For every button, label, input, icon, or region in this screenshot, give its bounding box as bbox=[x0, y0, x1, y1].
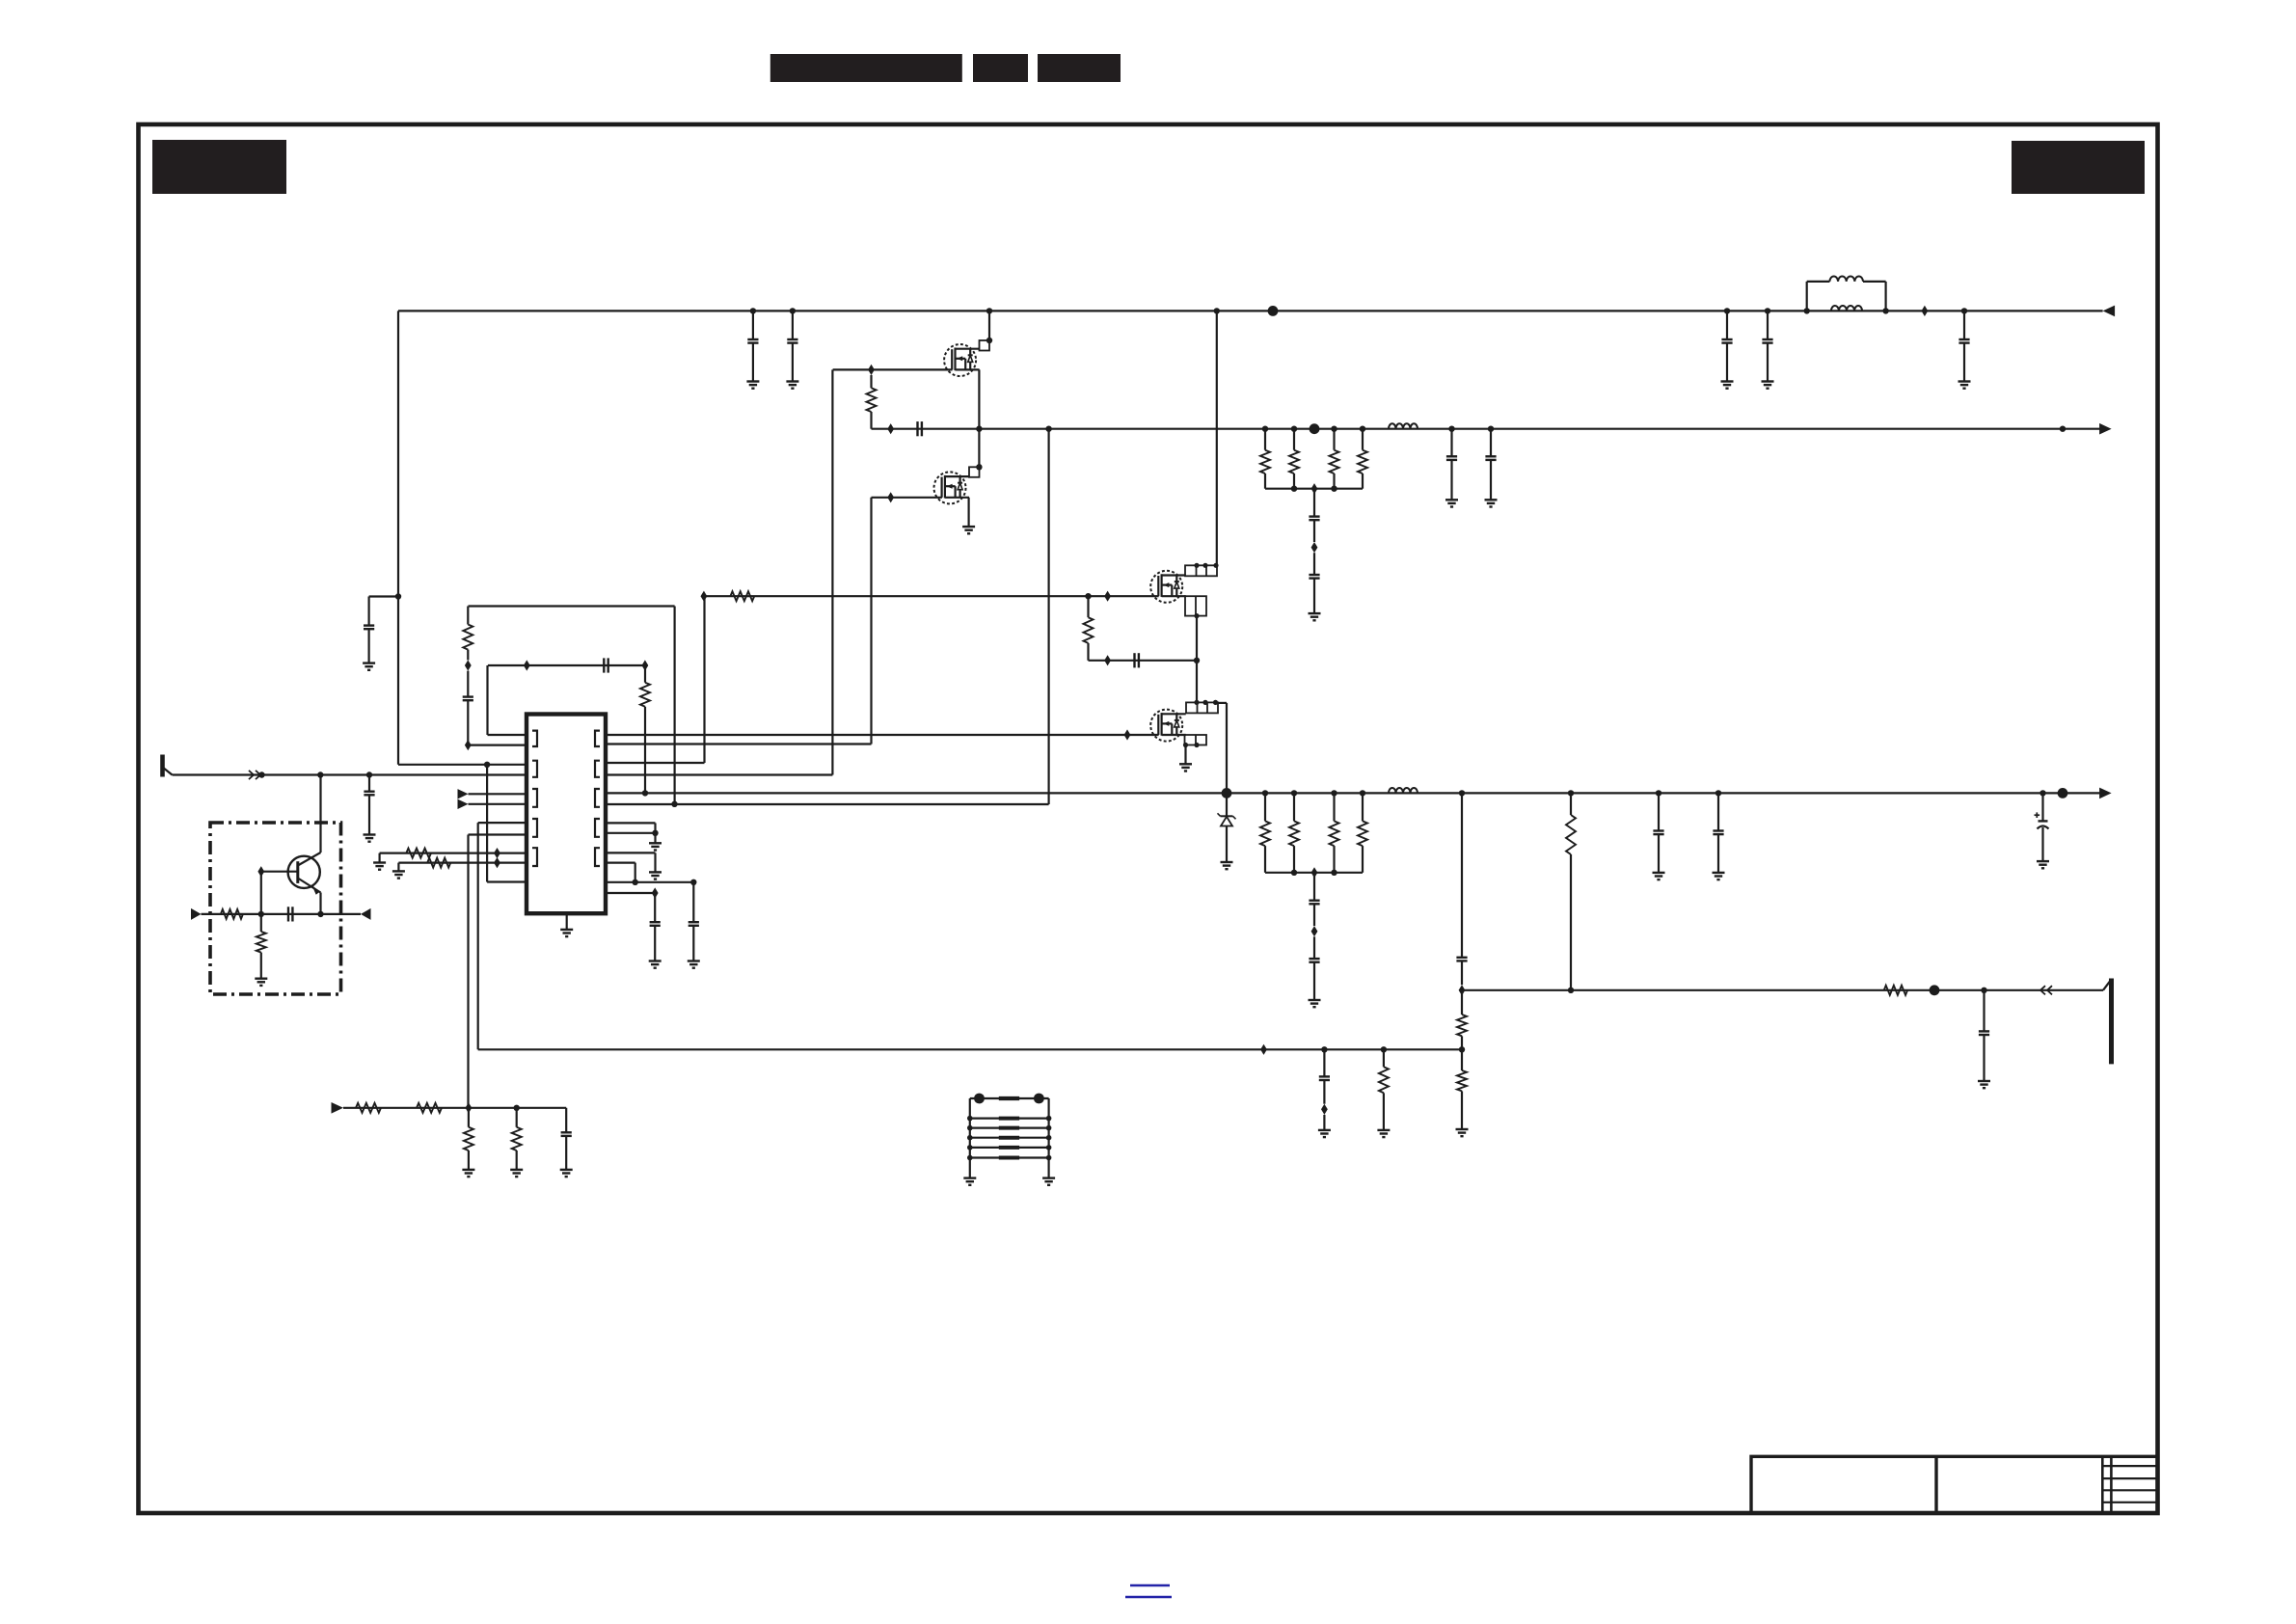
wire marker chevrons J1 bbox=[249, 771, 254, 779]
node rail2/C9 junction bbox=[1448, 426, 1454, 432]
ground C13 bbox=[1309, 999, 1321, 1001]
junction diamond Q1 gate bbox=[868, 365, 875, 375]
node rail2/R4 junction bbox=[1331, 426, 1337, 432]
wire U1 pin L4a (y853.1) bbox=[478, 822, 527, 824]
junction diamond pin884 bbox=[494, 848, 500, 858]
node rail3/R14 junction bbox=[1568, 790, 1574, 796]
wire Q1 drain to rail1 bbox=[988, 311, 990, 340]
junction diamond Q4 gate bbox=[1124, 729, 1131, 740]
node emitter junction bbox=[317, 911, 323, 917]
node Q3 source pad bbox=[1194, 613, 1199, 618]
off-page connector J1 (left) bbox=[160, 755, 165, 777]
ground U1 bbox=[560, 929, 573, 931]
ground C1 bbox=[746, 380, 759, 382]
input arrow (bottom network) bbox=[332, 1102, 344, 1114]
ground pins R4 bbox=[649, 842, 662, 844]
resistor R14 (rail3 to fb2) bbox=[1570, 793, 1572, 815]
Q3 drain pad group bbox=[1185, 565, 1217, 576]
node gnd stub R4 bbox=[652, 830, 658, 836]
wire rail3 output bbox=[606, 792, 2101, 794]
JP1 rows 2-6 bbox=[970, 1117, 1049, 1119]
capacitor C16 bbox=[1717, 793, 1719, 830]
junction diamond rail2 bank bus bbox=[1311, 483, 1318, 494]
dash-dot option box bbox=[210, 823, 341, 994]
wire U1 pin R7 (y926) bbox=[606, 892, 655, 894]
wire U1 pin R2a (y791) bbox=[606, 762, 705, 764]
wire U1 pin L5b (y894.6) bbox=[398, 861, 527, 863]
jumper block JP1 left rail bbox=[969, 1098, 971, 1178]
wire Q4 drain to rail3 bbox=[1218, 702, 1227, 704]
node pin792.8 / feedback branch bbox=[484, 762, 490, 768]
node comp drop to pin833.8 bbox=[671, 801, 677, 807]
wire Q4 gate bbox=[606, 734, 1159, 736]
redaction bar 3 (top title) bbox=[1038, 54, 1121, 82]
capacitor C18 bbox=[1983, 990, 1985, 1032]
wire Q4 source to ground bbox=[1184, 745, 1186, 765]
junction diamond fb2 left bbox=[1459, 985, 1466, 995]
wire C19 ground lead bbox=[1323, 1115, 1325, 1130]
node Q4 source pad b bbox=[1194, 743, 1199, 747]
wire Q3 source chain (x1241) bbox=[1196, 616, 1198, 703]
junction diamond comp chain bbox=[465, 660, 472, 670]
wire marker chevrons fb2 bbox=[2047, 986, 2052, 994]
node Q4 source pad a bbox=[1183, 743, 1188, 747]
node rail3 switch-node junction bbox=[1222, 788, 1232, 798]
ground C19 bbox=[1318, 1129, 1331, 1131]
ground C27 bbox=[363, 662, 375, 663]
node Q3 drain pad c bbox=[1213, 563, 1218, 568]
wire Q5 collector bbox=[319, 775, 321, 853]
node Q3 gate RC junction bbox=[1085, 593, 1091, 599]
capacitor C23 bbox=[692, 882, 694, 922]
capacitor C13 (bank2 chain lower) bbox=[1313, 936, 1315, 959]
node rail3/R11 junction bbox=[1360, 790, 1365, 796]
input arrow (BJT box) bbox=[191, 908, 202, 920]
U1 left pin groups bbox=[532, 731, 537, 746]
wire U1 pin L3a (y823.3) bbox=[469, 793, 527, 795]
resistor R10 (rail3 bank) bbox=[1333, 793, 1335, 821]
node rail3/R8 junction bbox=[1262, 790, 1268, 796]
resistor R5 (rail2 bank) bbox=[1362, 429, 1364, 450]
wire Q3 gate bbox=[704, 595, 1159, 597]
resistor R18 (comp chain) bbox=[467, 607, 469, 625]
node C22 junction bbox=[366, 771, 372, 777]
resistor R13 (fb divider lower) bbox=[1461, 1049, 1463, 1070]
inductor L2 (parallel bypass) bbox=[1806, 282, 1808, 311]
wire rail3 bank bus bbox=[1265, 872, 1363, 874]
wire U1 pin R5b (y894.6) bbox=[606, 861, 635, 863]
capacitor C10 bbox=[1490, 429, 1492, 457]
junction diamond y690 right bbox=[642, 660, 649, 670]
ground R13 bbox=[1456, 1128, 1469, 1130]
node rail2 end junction bbox=[2060, 426, 2066, 432]
node L1 right junction bbox=[1882, 308, 1888, 313]
ground C24 bbox=[649, 960, 662, 961]
junction diamond rail2 left bbox=[887, 423, 894, 434]
wire U1 pin R1b (y771.5) bbox=[606, 743, 872, 744]
wire rail1 VIN bbox=[398, 310, 2103, 311]
node rail2/R3 junction bbox=[1291, 426, 1297, 432]
wire Q2 gate bbox=[872, 497, 942, 499]
wire U1 pin R4b (y863.8) bbox=[606, 832, 656, 834]
junction diamond rail3 bank bus bbox=[1311, 867, 1318, 878]
transistor Q4 (low-side MOSFET) bbox=[1150, 710, 1182, 742]
node fb/R12 junction bbox=[1459, 1046, 1465, 1052]
node rail1/Q3 drain junction bbox=[1214, 308, 1220, 313]
node rail2/feedback drop junction bbox=[1045, 426, 1051, 432]
ground C26 bbox=[560, 1169, 573, 1171]
wire rail2->IC pin (y834) bbox=[606, 803, 1049, 805]
ground C8 bbox=[1309, 612, 1321, 614]
node Q1 drain pad junction bbox=[986, 338, 992, 343]
redaction bar 2 (top title) bbox=[973, 54, 1028, 82]
wire Q2 source to ground bbox=[967, 498, 969, 527]
capacitor C3 bbox=[1726, 311, 1728, 339]
wire net y690 (pin762 to R17 chain) bbox=[488, 664, 645, 666]
node x413/C27 junction bbox=[395, 593, 401, 599]
resistor R16 bbox=[1383, 1049, 1385, 1067]
node rail2/Q1 source junction bbox=[976, 426, 982, 432]
capacitor C14 (rail3 to fb) bbox=[1461, 793, 1463, 957]
resistor R11 (rail3 bank) bbox=[1362, 793, 1364, 821]
node BJT collector junction bbox=[317, 771, 323, 777]
node JP1 r1 left bbox=[974, 1094, 985, 1104]
capacitor C15 bbox=[1658, 793, 1660, 830]
ground R25 bbox=[462, 1169, 474, 1171]
node rail2/C10 junction bbox=[1488, 426, 1494, 432]
resistor R1 (Q1 gate pulldown) bbox=[870, 375, 872, 388]
node Q3 RC/source junction bbox=[1194, 658, 1200, 663]
wire R19 ground lead bbox=[379, 853, 381, 863]
junction diamond pin772 bbox=[465, 740, 472, 750]
node rail3/RC-chain junction bbox=[642, 790, 648, 796]
capacitor C24 bbox=[654, 893, 656, 922]
node rail3/R10 junction bbox=[1331, 790, 1337, 796]
title block divider 1 bbox=[1934, 1456, 1937, 1513]
wire comp drop (x699.6) bbox=[673, 607, 675, 804]
title block outline bbox=[1751, 1456, 2158, 1513]
op-amp controller U1 bbox=[527, 715, 606, 914]
title block narrow column line a bbox=[2101, 1456, 2104, 1513]
ground C16 bbox=[1713, 872, 1725, 874]
node fb2/C18 junction bbox=[1981, 988, 1986, 993]
wire U1 pin L2b (y803.5) from J1 bbox=[173, 773, 527, 775]
ground JP1 right bbox=[1042, 1177, 1055, 1178]
Q2 drain pad bbox=[969, 467, 980, 477]
capacitor C4 bbox=[1767, 311, 1769, 339]
transistor Q1 (high-side MOSFET) bbox=[944, 344, 976, 376]
node rail3 net marker bbox=[2058, 788, 2068, 798]
node Q4 drain pad b bbox=[1202, 700, 1207, 705]
node rail3/R9 junction bbox=[1291, 790, 1297, 796]
capacitor C2 bbox=[792, 311, 794, 339]
resistor R19 (pin884 to gnd) bbox=[406, 849, 431, 858]
ground C10 bbox=[1485, 499, 1498, 501]
capacitor C5 bbox=[1963, 311, 1965, 339]
node rail1/C5 junction bbox=[1961, 308, 1967, 313]
node rail2/R5 junction bbox=[1360, 426, 1365, 432]
wire U1 ground stub bbox=[566, 913, 568, 930]
wire Q1 source / Q2 drain link bbox=[978, 369, 980, 467]
resistor R15 (fb2 series) bbox=[1884, 986, 1907, 995]
node fb1/C19 junction bbox=[1321, 1046, 1327, 1052]
node rail1/C4 junction bbox=[1765, 308, 1770, 313]
Q4 drain pad group bbox=[1186, 702, 1218, 713]
capacitor C11 (Q3 gate-source) bbox=[1133, 653, 1135, 667]
blue link underline 1 bbox=[1130, 1584, 1170, 1587]
capacitor C12 (bank2 chain upper) bbox=[1313, 873, 1315, 901]
wire U1 pin R4a (y853.4) bbox=[606, 822, 656, 824]
inductor L1 (in line) bbox=[1831, 306, 1862, 311]
node rail1/C3 junction bbox=[1724, 308, 1730, 313]
wire base riser bbox=[260, 872, 262, 914]
resistor R7 (Q3 gate-source) bbox=[1087, 596, 1089, 617]
blue link underline 2 bbox=[1125, 1596, 1172, 1599]
node rail3/C16 junction bbox=[1715, 790, 1721, 796]
node Q2 drain pad junction bbox=[976, 464, 982, 470]
ground Q4 source bbox=[1179, 763, 1192, 765]
Q1 drain pad bbox=[980, 340, 990, 351]
node rail1/Q1 drain junction bbox=[986, 308, 992, 313]
ground C4 bbox=[1762, 380, 1774, 382]
transistor Q3 (high-side MOSFET) bbox=[1150, 571, 1182, 603]
junction diamond R6 left bbox=[701, 591, 708, 602]
ground C17 bbox=[2037, 860, 2049, 862]
capacitor C26 bbox=[565, 1108, 567, 1133]
capacitor C21 (comp chain) bbox=[467, 700, 469, 744]
node rail3/C17 junction bbox=[2039, 790, 2045, 796]
ground D1 bbox=[1221, 861, 1233, 863]
node bus2/R9 junction bbox=[1291, 870, 1297, 876]
wire U1 pin L1b (y772.6) bbox=[468, 744, 527, 745]
capacitor C9 bbox=[1450, 429, 1452, 457]
ground C2 bbox=[786, 380, 798, 382]
node bus2/R10 junction bbox=[1331, 870, 1337, 876]
ground Q2 source bbox=[962, 526, 975, 528]
junction diamond net y690 bbox=[524, 660, 530, 670]
title block revision rows bbox=[2102, 1465, 2157, 1467]
inductor L4 (rail3) bbox=[1389, 788, 1418, 793]
wire U1 pin L5a (y884.6) bbox=[380, 852, 527, 853]
junction diamond fb1 bbox=[1260, 1044, 1267, 1055]
node base RC junction bbox=[258, 911, 264, 917]
inductor L3 (rail2) bbox=[1389, 423, 1418, 428]
resistor R8 (rail3 bank) bbox=[1264, 793, 1266, 821]
resistor R3 (rail2 bank) bbox=[1293, 429, 1295, 450]
wire R20 ground lead bbox=[397, 863, 399, 872]
wire U1 pin L3b (y833.8) bbox=[469, 803, 527, 805]
resistor R26 (to gnd) bbox=[516, 1108, 518, 1127]
wire branch x505.1 down bbox=[486, 765, 488, 882]
title block narrow column line b bbox=[2110, 1456, 2113, 1513]
resistor R23 bbox=[356, 1103, 381, 1113]
node chevron junction bbox=[258, 771, 264, 777]
ground C18 bbox=[1978, 1080, 1990, 1082]
input arrow U1 pin L3b bbox=[458, 799, 469, 809]
redaction box top-left bbox=[152, 140, 286, 194]
wire rail1 left drop (x413) bbox=[397, 311, 399, 764]
junction diamond bottom node bbox=[466, 1102, 473, 1113]
wire Q2 gate riser (x903.5) bbox=[870, 498, 872, 744]
capacitor C1 bbox=[752, 311, 754, 339]
wire BJT RC row bbox=[202, 913, 362, 915]
Q3 source pad group bbox=[1185, 596, 1206, 615]
wire bottom network row bbox=[343, 1107, 566, 1109]
node C23 junction bbox=[690, 880, 696, 885]
capacitor C8 (bank chain lower) bbox=[1313, 553, 1315, 575]
node pin R5b to y914.8 bbox=[633, 880, 638, 885]
off-page connector J2 (right) bbox=[2103, 981, 2111, 990]
resistor R24 bbox=[417, 1103, 442, 1113]
jumper block JP1 right rail bbox=[1047, 1098, 1049, 1178]
wire U1 pin L4b (y865.5) bbox=[469, 833, 527, 835]
junction diamond bank2 chain bbox=[1311, 926, 1318, 936]
node Q4 drain pad a bbox=[1194, 700, 1199, 705]
resistor R9 (rail3 bank) bbox=[1293, 793, 1295, 821]
node L1 left junction bbox=[1804, 308, 1810, 313]
capacitor C6 (series, rail2 left) bbox=[916, 421, 918, 436]
wire U1 pin R2b (y803.5) bbox=[606, 773, 832, 775]
junction diamond Q2 gate bbox=[887, 492, 894, 502]
capacitor C27 bbox=[369, 595, 398, 597]
junction diamond C24 bbox=[652, 887, 659, 898]
node bus/R3 junction bbox=[1291, 486, 1297, 492]
resistor R25 (to gnd) bbox=[468, 1108, 470, 1127]
wire Q3 drain to rail1 bbox=[1216, 311, 1218, 565]
resistor R21 (input) bbox=[221, 909, 243, 919]
ground R22 bbox=[255, 978, 267, 980]
wire Q5 emitter bbox=[319, 893, 321, 914]
ground C22 bbox=[364, 833, 376, 835]
junction diamond rail1 bbox=[1922, 306, 1929, 316]
Q4 source pad group bbox=[1185, 735, 1207, 745]
wire feedback fb2 (y1026.8) bbox=[1462, 989, 2103, 991]
node JP1 r1 right bbox=[1034, 1094, 1044, 1104]
capacitor C17 (electrolytic) bbox=[2041, 793, 2043, 821]
ground C23 bbox=[688, 960, 700, 961]
wire comp top (y628.5) bbox=[469, 605, 675, 607]
ground JP1 left bbox=[963, 1177, 976, 1178]
resistor R20 (pin894 to gnd) bbox=[427, 858, 450, 868]
wire U1 pin R5a (y884.4) bbox=[606, 852, 656, 853]
capacitor C25 (series) bbox=[287, 907, 289, 921]
wire rail2 bank bus bbox=[1265, 488, 1363, 490]
node rail1/C2 junction bbox=[790, 308, 796, 313]
transistor Q5 (BJT) bbox=[288, 856, 320, 888]
resistor R17 (to rail3 pin) bbox=[644, 665, 646, 683]
node Q3 drain pad b bbox=[1202, 563, 1207, 568]
wire rail2 switch-node output bbox=[872, 428, 2102, 430]
node rail2/R2 junction bbox=[1262, 426, 1268, 432]
U1 right pin groups bbox=[595, 731, 600, 746]
ground C9 bbox=[1445, 499, 1458, 501]
junction diamond bank chain bbox=[1311, 542, 1318, 553]
output arrow (BJT box) bbox=[361, 908, 371, 920]
resistor R22 (base pulldown) bbox=[260, 914, 262, 932]
ground C5 bbox=[1958, 380, 1971, 382]
node rail3/C15 junction bbox=[1656, 790, 1661, 796]
ground R19 bbox=[373, 861, 386, 863]
capacitor C7 (bank chain upper) bbox=[1313, 489, 1315, 517]
node rail1/C1 junction bbox=[750, 308, 756, 313]
node rail3/C14 junction bbox=[1459, 790, 1465, 796]
page frame bbox=[139, 124, 2158, 1513]
junction diamond base bbox=[257, 866, 264, 877]
node fb2/R14 junction bbox=[1568, 988, 1574, 993]
ground C15 bbox=[1653, 872, 1665, 874]
node fb2 net marker bbox=[1930, 985, 1940, 995]
wire base lead bbox=[261, 871, 298, 873]
input arrow U1 pin L3a bbox=[458, 789, 469, 798]
resistor R2 (rail2 bank) bbox=[1264, 429, 1266, 450]
wire Q3 RC row bbox=[1089, 660, 1198, 662]
zener diode D1 bbox=[1226, 793, 1228, 816]
redaction bar 1 (top title) bbox=[770, 54, 962, 82]
resistor R4 (rail2 bank) bbox=[1333, 429, 1335, 450]
wire U1 pin R6 (y914.8) bbox=[606, 881, 693, 883]
junction diamond Q3 RC bbox=[1104, 655, 1111, 665]
junction diamond C19/ground bbox=[1321, 1104, 1328, 1115]
junction diamond Q3 gate bbox=[1104, 591, 1111, 602]
ground R26 bbox=[510, 1169, 523, 1171]
node bus/R4 junction bbox=[1331, 486, 1337, 492]
resistor R6 (Q3 gate chain) bbox=[730, 591, 754, 601]
capacitor C19 bbox=[1323, 1049, 1325, 1076]
junction diamond pin894 bbox=[494, 857, 500, 868]
wire U1 pin L1a (y762) bbox=[488, 734, 527, 736]
node bottom/R26 junction bbox=[514, 1105, 520, 1111]
off-page connector arrow (rail1 end) bbox=[2103, 306, 2116, 317]
ground R16 bbox=[1377, 1129, 1390, 1131]
capacitor C22 bbox=[368, 775, 370, 792]
node rail2 net marker bbox=[1310, 423, 1320, 434]
transistor Q2 (low-side MOSFET) bbox=[934, 472, 966, 503]
node fb1/R16 junction bbox=[1381, 1046, 1387, 1052]
wire Q1 gate bbox=[833, 368, 953, 370]
node Q4 drain pad c bbox=[1213, 700, 1218, 705]
ground R20 bbox=[392, 870, 405, 872]
node Q3 drain pad a bbox=[1194, 563, 1199, 568]
wire U1 pin L6 (y914.5) bbox=[487, 880, 527, 882]
node VIN net marker bbox=[1268, 306, 1279, 316]
wire rail2 feedback drop (x1087.6) bbox=[1047, 429, 1049, 804]
off-page connector arrow (rail2 end) bbox=[2099, 423, 2112, 435]
ground pin R5a bbox=[649, 871, 662, 873]
capacitor C20 (series y690) bbox=[603, 658, 605, 672]
off-page connector arrow (rail3 end) bbox=[2099, 788, 2112, 799]
ground C3 bbox=[1721, 380, 1734, 382]
JP1 row 1 bbox=[970, 1097, 1049, 1099]
wire feedback fb1 (y1088.3) bbox=[478, 1048, 1462, 1050]
redaction box top-right bbox=[2012, 141, 2145, 194]
resistor R12 (fb divider upper) bbox=[1461, 990, 1463, 1015]
wire gnd stub R4 bbox=[654, 833, 656, 844]
wire U1 pin L2a (y792.8) bbox=[398, 764, 527, 766]
